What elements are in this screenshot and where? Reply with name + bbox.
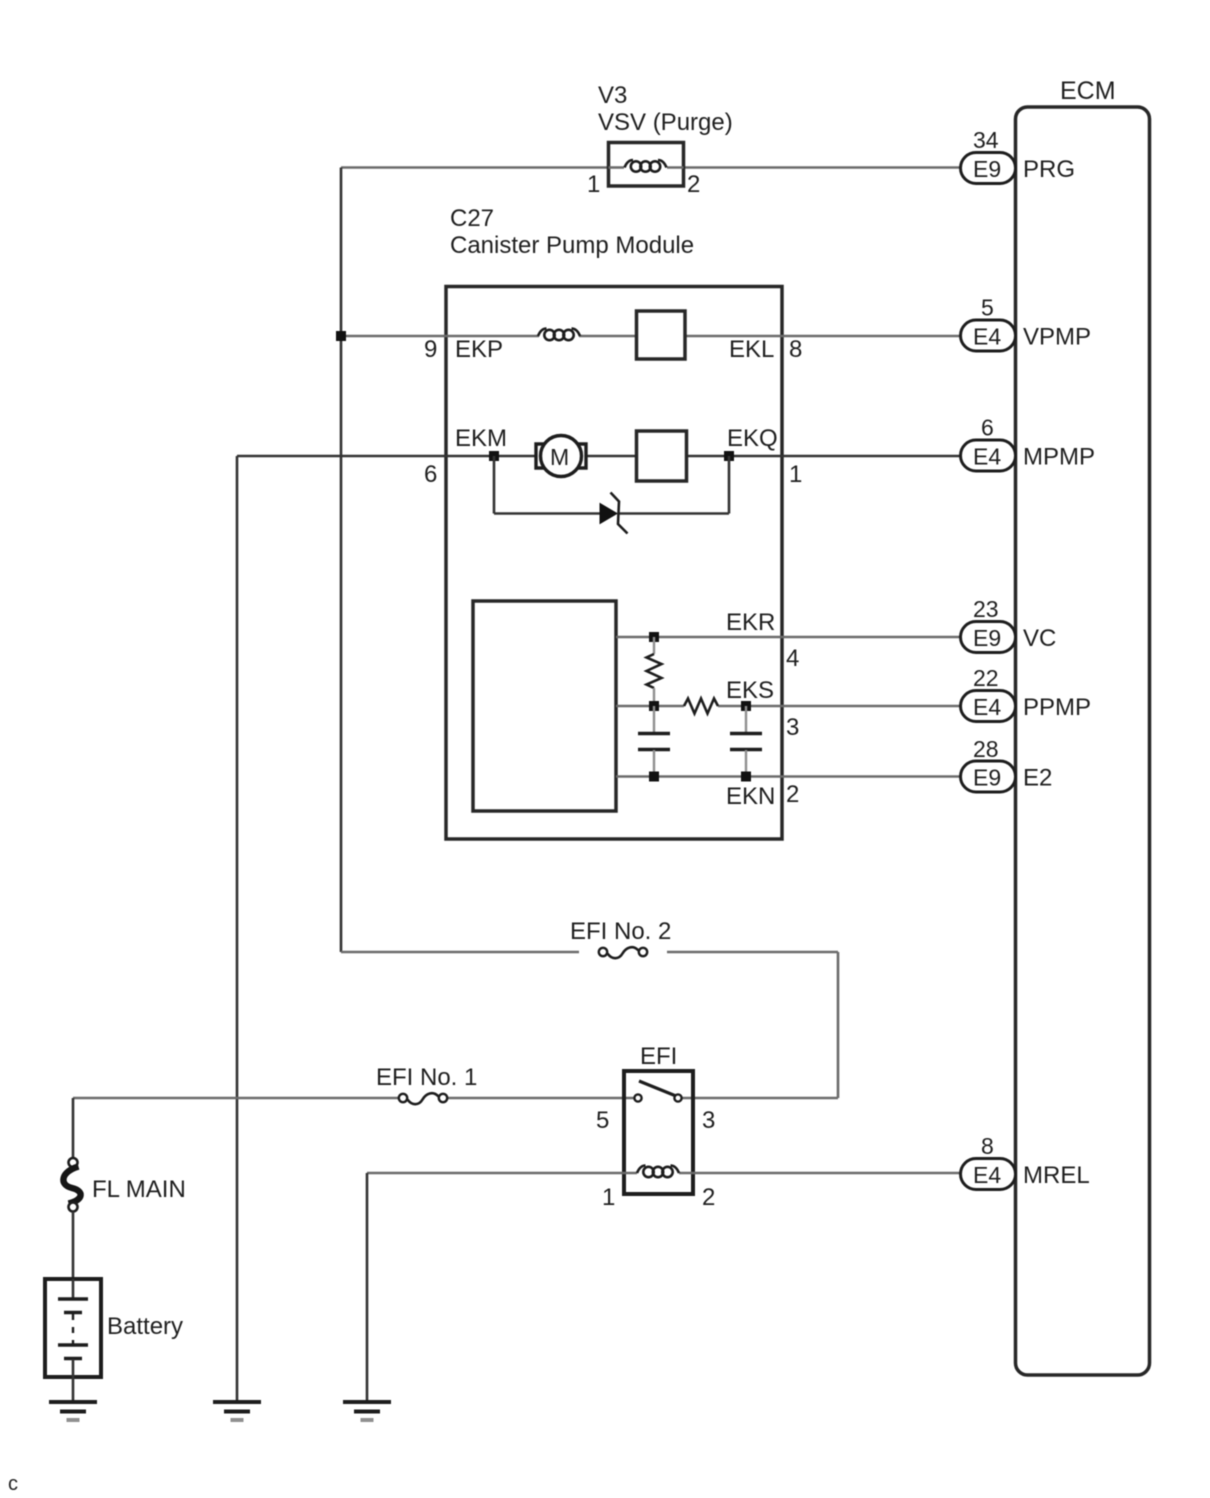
connector E4 8 MREL [961,1133,1090,1190]
wire vertical feeder from PRG row to EFI No.2 row [340,168,343,953]
connector E4 22 PPMP [961,665,1092,722]
svg-text:1: 1 [789,461,802,488]
battery [45,1279,101,1377]
EFI relay box [624,1071,693,1194]
svg-text:EKR: EKR [726,609,775,636]
motor M [541,436,582,477]
connector E4 6 MPMP [961,415,1096,472]
fuse EFI No.1 [399,1093,447,1104]
svg-text:EFI: EFI [640,1043,677,1070]
bypass wire with zener [493,456,496,514]
wire MPMP row [237,455,536,458]
svg-text:EKP: EKP [455,336,503,363]
wire EKN row [616,775,962,778]
svg-text:M: M [550,444,569,470]
svg-text:E4: E4 [973,694,1001,720]
svg-text:3: 3 [786,714,799,741]
svg-text:6: 6 [424,461,437,488]
vertical feeder from relay pin1 to ground [366,1173,369,1402]
svg-text:EKQ: EKQ [727,425,778,452]
capacitor right [730,706,762,776]
wire EFI No.2 row [341,951,579,954]
svg-text:VC: VC [1023,625,1056,652]
solenoid V3 VSV (Purge) [609,143,684,187]
svg-text:FL MAIN: FL MAIN [92,1176,186,1203]
sensor box inside C27 [473,601,616,811]
junction dot EKS left [649,701,659,711]
svg-text:1: 1 [602,1184,615,1211]
svg-text:ECM: ECM [1060,77,1116,105]
svg-text:C27: C27 [450,205,494,232]
svg-text:2: 2 [687,171,700,198]
svg-text:E9: E9 [973,765,1001,791]
component box EKP row [637,311,686,359]
svg-text:VSV (Purge): VSV (Purge) [598,109,733,136]
svg-text:8: 8 [981,1133,994,1159]
svg-text:EKN: EKN [726,783,775,810]
svg-text:Battery: Battery [107,1313,183,1340]
junction dot EKR [649,632,659,642]
ECM box [1016,107,1150,1375]
svg-text:MPMP: MPMP [1023,444,1095,471]
svg-text:28: 28 [973,736,999,762]
svg-text:MREL: MREL [1023,1162,1090,1189]
wire EKR row [616,636,962,639]
svg-text:PPMP: PPMP [1023,694,1091,721]
wire EKS row [616,705,684,708]
svg-text:PRG: PRG [1023,156,1075,183]
connector E9 23 VC [961,596,1057,653]
svg-text:6: 6 [981,415,994,441]
junction dot EKN right [741,772,751,782]
relay contact 5 [634,1094,641,1101]
component box EKQ row [637,431,687,481]
svg-text:9: 9 [424,336,437,363]
svg-text:VPMP: VPMP [1023,324,1091,351]
wire PRG right segment [684,166,963,169]
junction dot EKN left [649,772,659,782]
relay switch blade [639,1081,676,1096]
svg-text:E2: E2 [1023,765,1052,792]
ground battery [49,1402,97,1420]
fuse EFI No.2 [599,947,647,958]
svg-text:4: 4 [786,645,799,672]
junction dot EKS right [741,701,751,711]
vertical feeder from MPMP row to ground [236,456,239,1402]
junction dot EKM [489,451,499,461]
svg-text:1: 1 [587,171,600,198]
connector E4 5 VPMP [961,295,1092,352]
fusible link FL MAIN [69,1158,78,1167]
wire MREL row through relay coil [367,1172,637,1175]
wire VPMP row [341,335,539,338]
svg-text:E4: E4 [973,444,1001,470]
svg-text:3: 3 [702,1107,715,1134]
connector E9 28 E2 [961,736,1053,792]
svg-text:E4: E4 [973,324,1001,350]
svg-text:E9: E9 [973,625,1001,651]
relay contact 3 [674,1094,681,1101]
svg-text:EKM: EKM [455,425,507,452]
svg-text:E4: E4 [973,1162,1001,1188]
svg-text:EFI No. 2: EFI No. 2 [570,918,671,945]
ground right [343,1402,391,1420]
svg-text:23: 23 [973,596,999,622]
vertical feeder FL MAIN [72,1098,75,1158]
wire EFI No.1 row [73,1097,399,1100]
connector E9 34 PRG [961,127,1076,184]
coil EKP row [538,329,580,341]
svg-text:22: 22 [973,665,999,691]
svg-text:5: 5 [596,1107,609,1134]
ground center [213,1402,261,1420]
svg-text:c: c [8,1473,18,1495]
zener diode [600,504,617,524]
svg-text:8: 8 [789,336,802,363]
svg-text:34: 34 [973,127,999,153]
junction dot EKQ [724,451,734,461]
junction on feeder at VPMP row [336,331,346,341]
svg-text:Canister Pump Module: Canister Pump Module [450,232,694,259]
svg-text:E9: E9 [973,156,1001,182]
svg-text:EFI No. 1: EFI No. 1 [376,1064,477,1091]
svg-text:EKS: EKS [726,677,774,704]
svg-text:V3: V3 [598,82,627,109]
svg-text:2: 2 [786,781,799,808]
svg-text:5: 5 [981,295,994,321]
capacitor left [638,706,670,776]
wire PRG left segment [341,166,609,169]
svg-text:2: 2 [702,1184,715,1211]
resistor horizontal [684,699,718,714]
C27 box [446,287,782,840]
relay coil [637,1166,679,1178]
resistor vertical [653,637,655,654]
svg-text:EKL: EKL [729,336,774,363]
